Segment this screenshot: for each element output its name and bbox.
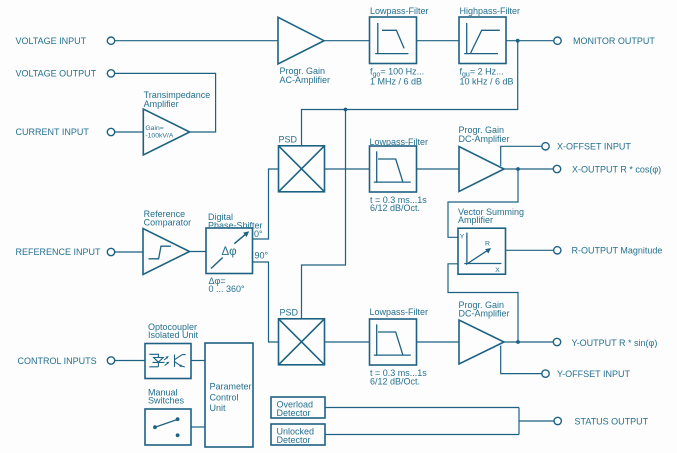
node X-OFFSET terminal bbox=[542, 143, 549, 150]
wire unlocked detector output bbox=[325, 434, 519, 436]
svg-text:Highpass-Filter: Highpass-Filter bbox=[460, 6, 521, 16]
node junction monitor branch bbox=[516, 39, 520, 43]
icon switch bbox=[155, 419, 178, 427]
svg-text:R-OUTPUT Magnitude: R-OUTPUT Magnitude bbox=[572, 246, 663, 256]
wire lowpass to highpass bbox=[417, 40, 460, 42]
node VOLTAGE OUTPUT terminal bbox=[107, 70, 114, 77]
svg-text:Lowpass-Filter: Lowpass-Filter bbox=[370, 307, 429, 317]
block Overload Detector box bbox=[271, 397, 325, 418]
comparator Reference Comparator triangle bbox=[143, 229, 190, 275]
block Unlocked Detector box bbox=[271, 424, 325, 445]
svg-text:X-OFFSET INPUT: X-OFFSET INPUT bbox=[557, 142, 631, 152]
block Parameter Control Unit box bbox=[205, 343, 253, 447]
svg-text:Lowpass-Filter: Lowpass-Filter bbox=[370, 137, 429, 147]
wire branch down to PSD2 bbox=[302, 110, 346, 319]
op-amp Transimpedance Amplifier triangle bbox=[143, 109, 189, 155]
svg-text:90°: 90° bbox=[255, 251, 269, 261]
wire Y offset input bbox=[501, 346, 542, 374]
node MONITOR OUTPUT terminal bbox=[554, 37, 561, 44]
wire overload detector output bbox=[325, 407, 519, 409]
wire PSD1 to lowpass2 bbox=[325, 168, 370, 170]
mixer PSD1 box bbox=[279, 146, 325, 192]
wire X offset input bbox=[501, 146, 542, 166]
wire voltage input to AC amplifier bbox=[115, 40, 278, 42]
op-amp Y DC-Amplifier triangle bbox=[459, 320, 504, 364]
wire Y amp output bbox=[504, 341, 553, 343]
block Vector Summing Amplifier box bbox=[458, 228, 506, 274]
wire AC amp to lowpass filter bbox=[324, 40, 370, 42]
svg-text:DC-Amplifier: DC-Amplifier bbox=[459, 134, 510, 144]
svg-text:X-OUTPUT R * cos(φ): X-OUTPUT R * cos(φ) bbox=[572, 164, 661, 174]
node REFERENCE INPUT terminal bbox=[107, 248, 114, 255]
svg-text:-100kV/A: -100kV/A bbox=[145, 132, 173, 139]
svg-text:Amplifier: Amplifier bbox=[144, 99, 179, 109]
wire 0 degree output to PSD1 bbox=[253, 169, 279, 239]
svg-text:Δφ: Δφ bbox=[222, 246, 237, 258]
icon lowpass response top bbox=[375, 23, 408, 54]
svg-text:Switches: Switches bbox=[148, 395, 185, 405]
wire lowpass2 to X amplifier bbox=[417, 168, 460, 170]
icon highpass response bbox=[464, 23, 500, 54]
wire voltage output from transimpedance amp bbox=[115, 73, 216, 132]
svg-text:1 MHz / 6 dB: 1 MHz / 6 dB bbox=[370, 77, 422, 87]
svg-text:AC-Amplifier: AC-Amplifier bbox=[280, 75, 331, 85]
svg-text:0°: 0° bbox=[254, 229, 263, 239]
svg-text:DC-Amplifier: DC-Amplifier bbox=[459, 309, 510, 319]
wire optocoupler to parameter unit bbox=[191, 360, 205, 362]
node R-OUTPUT terminal bbox=[554, 247, 561, 254]
wire current input to transimpedance amp bbox=[115, 131, 144, 133]
svg-text:0 ... 360°: 0 ... 360° bbox=[209, 284, 246, 294]
icon optocoupler bbox=[149, 354, 164, 367]
svg-text:Comparator: Comparator bbox=[144, 218, 192, 228]
svg-text:Control: Control bbox=[210, 393, 239, 403]
filter Lowpass-Filter box X channel bbox=[370, 146, 417, 192]
wire status join bbox=[518, 408, 520, 435]
svg-text:VOLTAGE OUTPUT: VOLTAGE OUTPUT bbox=[16, 69, 97, 79]
wire Y into vector summing bbox=[448, 264, 518, 342]
wire R output bbox=[506, 249, 554, 251]
svg-text:6/12 dB/Oct.: 6/12 dB/Oct. bbox=[370, 376, 420, 386]
node junction Y output bbox=[516, 340, 520, 344]
svg-text:6/12 dB/Oct.: 6/12 dB/Oct. bbox=[370, 203, 420, 213]
wire monitor branch down to PSD1 bbox=[302, 41, 518, 146]
node junction PSD feed bbox=[344, 108, 348, 112]
svg-text:PSD: PSD bbox=[279, 135, 298, 145]
node junction X output bbox=[516, 167, 520, 171]
svg-text:MONITOR OUTPUT: MONITOR OUTPUT bbox=[573, 36, 655, 46]
wire 90 degree output to PSD2 bbox=[253, 262, 279, 342]
node CONTROL INPUTS terminal bbox=[107, 357, 114, 364]
svg-text:R: R bbox=[485, 240, 490, 247]
op-amp X DC-Amplifier triangle bbox=[459, 147, 504, 192]
svg-text:Isolated Unit: Isolated Unit bbox=[148, 330, 199, 340]
wire PSD2 to lowpass3 bbox=[325, 341, 370, 343]
svg-text:Gain=: Gain= bbox=[145, 125, 163, 132]
block Manual Switches box bbox=[145, 409, 191, 445]
wire highpass to monitor output bbox=[506, 40, 554, 42]
svg-text:REFERENCE INPUT: REFERENCE INPUT bbox=[16, 247, 102, 257]
node STATUS OUTPUT terminal bbox=[554, 417, 561, 424]
icon vector axes and R arrow bbox=[464, 233, 501, 265]
wire X into vector summing bbox=[448, 169, 518, 237]
wire X amp output bbox=[504, 168, 553, 170]
node VOLTAGE INPUT terminal bbox=[107, 37, 114, 44]
svg-text:PSD: PSD bbox=[280, 308, 299, 318]
wire reference input to comparator bbox=[115, 251, 143, 253]
filter Highpass-Filter box bbox=[459, 17, 506, 64]
filter Lowpass-Filter box top bbox=[370, 17, 417, 64]
wire comparator to phase shifter bbox=[190, 251, 207, 253]
icon lowpass response Y bbox=[374, 324, 411, 356]
icon phase arrow bbox=[234, 234, 245, 243]
node Y-OUTPUT terminal bbox=[553, 338, 560, 345]
svg-text:Unit: Unit bbox=[210, 403, 227, 413]
icon lowpass response X bbox=[374, 151, 411, 183]
svg-text:Detector: Detector bbox=[277, 435, 311, 445]
svg-text:Y: Y bbox=[460, 234, 465, 241]
filter Lowpass-Filter box Y channel bbox=[370, 319, 417, 365]
icon comparator step bbox=[149, 246, 171, 259]
node CURRENT INPUT terminal bbox=[107, 128, 114, 135]
block Digital Phase-Shifter box bbox=[206, 228, 253, 274]
svg-text:Amplifier: Amplifier bbox=[458, 215, 493, 225]
wire manual switches to parameter unit bbox=[191, 426, 205, 428]
wire lowpass3 to Y amplifier bbox=[417, 341, 460, 343]
svg-text:Parameter: Parameter bbox=[210, 382, 252, 392]
svg-text:Y-OFFSET INPUT: Y-OFFSET INPUT bbox=[557, 369, 631, 379]
block Optocoupler Isolated Unit box bbox=[145, 344, 191, 379]
svg-text:10 kHz / 6 dB: 10 kHz / 6 dB bbox=[460, 77, 514, 87]
svg-text:VOLTAGE INPUT: VOLTAGE INPUT bbox=[16, 36, 87, 46]
mixer PSD2 box bbox=[279, 319, 325, 365]
wire control input to optocoupler bbox=[115, 360, 145, 362]
svg-text:Lowpass-Filter: Lowpass-Filter bbox=[370, 6, 429, 16]
svg-text:X: X bbox=[495, 267, 500, 274]
svg-text:Detector: Detector bbox=[277, 408, 311, 418]
svg-text:STATUS OUTPUT: STATUS OUTPUT bbox=[575, 416, 649, 426]
op-amp AC-Amplifier triangle bbox=[278, 17, 324, 64]
node X-OUTPUT terminal bbox=[553, 165, 560, 172]
node Y-OFFSET terminal bbox=[542, 370, 549, 377]
svg-text:CONTROL INPUTS: CONTROL INPUTS bbox=[18, 356, 97, 366]
svg-text:Y-OUTPUT R * sin(φ): Y-OUTPUT R * sin(φ) bbox=[572, 338, 658, 348]
svg-text:CURRENT INPUT: CURRENT INPUT bbox=[16, 127, 90, 137]
